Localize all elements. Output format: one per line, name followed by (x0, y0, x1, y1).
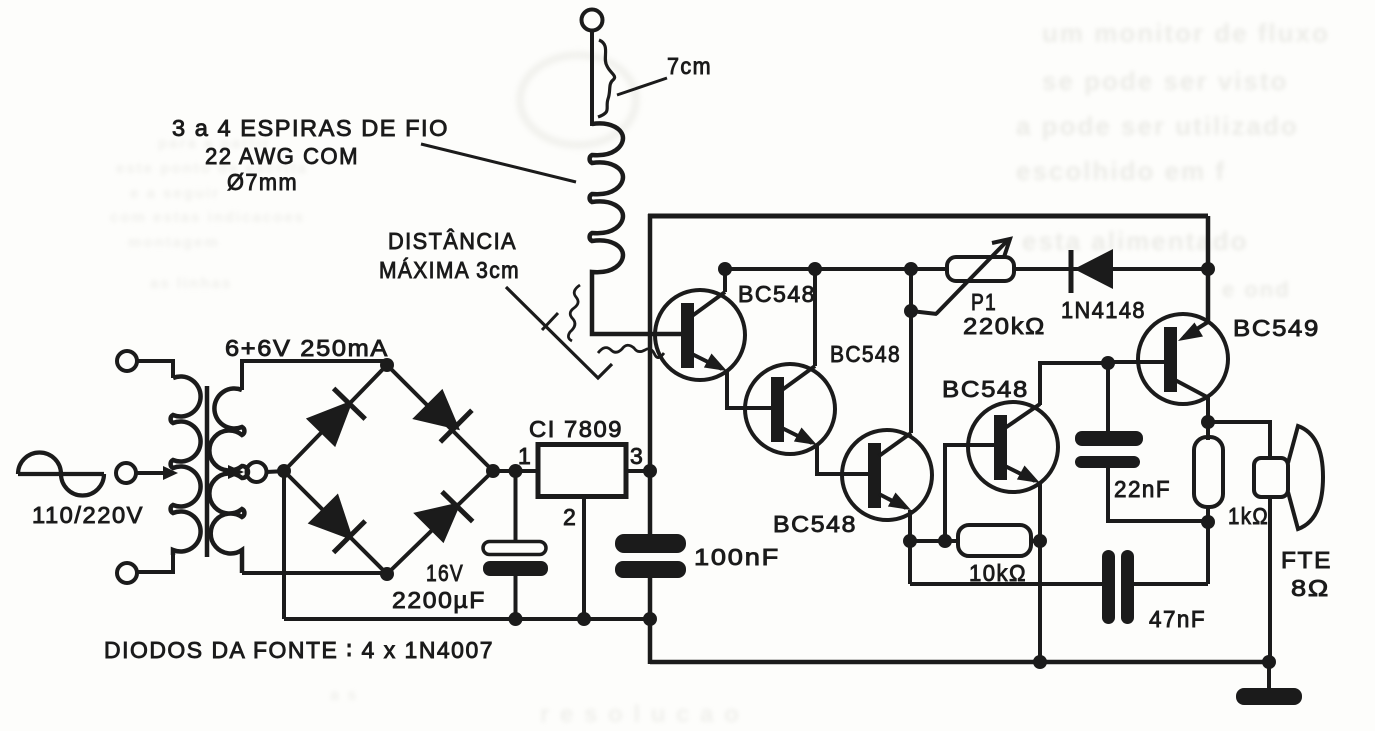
svg-text:a pode ser utilizado: a pode ser utilizado (1016, 111, 1299, 141)
node diode cathode rail (1201, 262, 1215, 276)
terminal top (117, 351, 137, 371)
primary tap arrow (163, 466, 178, 480)
svg-text:escolhido em f: escolhido em f (1016, 156, 1226, 186)
node rail end (643, 612, 657, 626)
wire BC549 base (1108, 360, 1164, 364)
secondary bottom wire (242, 571, 387, 575)
wire bottom rail (284, 617, 650, 621)
wire bottom terminal to primary (137, 555, 173, 572)
wire box top edge (648, 214, 1208, 219)
node bridge left (277, 464, 291, 478)
ghost bleed-through text left (110, 135, 308, 292)
svg-text:r e s o l u c a o: r e s o l u c a o (540, 701, 741, 728)
wire BC549 emitter down (1206, 397, 1210, 440)
transistor Q2 BC548 (745, 364, 835, 454)
node Q2 collector (808, 262, 822, 276)
node bridge right (486, 464, 500, 478)
transformer secondary winding (209, 389, 248, 574)
svg-text:16V: 16V (426, 560, 464, 586)
svg-text:P1: P1 (971, 289, 997, 315)
node pin2 bottom (577, 612, 591, 626)
resistor 10k (958, 525, 1031, 556)
ghost bleed-through bottom (330, 687, 741, 728)
transformer primary winding (171, 377, 201, 556)
svg-text:7cm: 7cm (667, 53, 712, 79)
diode D1 top-left (308, 388, 366, 445)
wire box left edge upper (648, 214, 653, 534)
wire box right edge top (1206, 216, 1211, 322)
wire pin3 (626, 469, 652, 473)
ground symbol (1236, 688, 1302, 705)
capacitor 2200uF wire top (514, 471, 518, 543)
node cap bottom (509, 612, 523, 626)
svg-text:BC548: BC548 (738, 281, 816, 307)
svg-text:BC549: BC549 (1233, 315, 1320, 341)
AC sine symbol (18, 452, 104, 495)
coil L1 3-4 espiras (590, 123, 681, 334)
svg-text:1kΩ: 1kΩ (1228, 503, 1269, 529)
node P1 wiper junction (904, 304, 918, 318)
wire Q1 emitter to Q2 base (727, 370, 771, 408)
svg-text:6+6V 250mA: 6+6V 250mA (225, 335, 389, 361)
node Q4 base bottom (938, 534, 952, 548)
wire bridge right to regulator (493, 469, 538, 473)
svg-text:DISTÂNCIA: DISTÂNCIA (388, 228, 517, 254)
distance squiggle below wire (598, 345, 664, 357)
svg-text:com estas indicacoes: com estas indicacoes (110, 209, 305, 226)
speaker FTE (1254, 426, 1323, 529)
node bridge bottom (380, 567, 394, 581)
wire box left edge lower (648, 578, 653, 664)
svg-text:CI 7809: CI 7809 (529, 416, 623, 442)
wire Q1 collector up (723, 269, 727, 292)
resistor 1k (1194, 437, 1223, 507)
wire Q3 collector up (909, 269, 913, 433)
capacitor 2200uF wire bottom (514, 576, 518, 619)
node pin3 (643, 464, 657, 478)
node bridge top (380, 358, 394, 372)
wire collector rail (725, 267, 947, 271)
secondary tap arrow (228, 465, 244, 479)
potentiometer P1 (911, 239, 1014, 314)
capacitor 100nF plate bottom (615, 561, 686, 578)
node BC549 emitter (1201, 415, 1215, 429)
svg-text:e a seguir: e a seguir (130, 185, 220, 202)
regulator CI7809 box (538, 445, 626, 497)
bridge diamond wires (284, 365, 493, 574)
svg-text:um monitor de fluxo: um monitor de fluxo (1042, 18, 1330, 48)
svg-text:a s: a s (330, 687, 358, 704)
wire pin2 (582, 496, 586, 619)
capacitor 22nF (1075, 363, 1208, 521)
wire speaker to ground (1268, 497, 1272, 664)
node Q3 emitter (903, 534, 917, 548)
wire Q2 emitter to Q3 base (817, 444, 868, 474)
transistor Q3 BC548 (842, 430, 932, 520)
svg-text:se pode ser visto: se pode ser visto (1042, 66, 1288, 96)
svg-text:Ø7mm: Ø7mm (227, 169, 298, 195)
svg-text:FTE: FTE (1281, 547, 1332, 573)
diode D2 top-right (414, 391, 472, 442)
transformer core (205, 386, 210, 557)
svg-text:1: 1 (518, 443, 532, 469)
wire speaker feed (1208, 422, 1270, 458)
svg-text:MÁXIMA 3cm: MÁXIMA 3cm (379, 257, 520, 283)
svg-text:3: 3 (630, 443, 644, 469)
svg-text:1N4148: 1N4148 (1061, 297, 1146, 323)
node ground junction (1262, 655, 1276, 669)
node Q4 emitter bottom rail (1033, 655, 1047, 669)
svg-text:110/220V: 110/220V (32, 502, 144, 528)
wire Q4 collector to BC549 base (1040, 363, 1108, 405)
secondary tap terminal (247, 462, 267, 482)
ghost bleed-through text top right (1016, 18, 1330, 302)
svg-text:DIODOS DA FONTE ∶ 4 x 1N4007: DIODOS DA FONTE ∶ 4 x 1N4007 (104, 637, 494, 663)
wire 10k node (910, 539, 958, 543)
capacitor 2200uF plate - (483, 561, 548, 576)
antenna wire (590, 31, 594, 127)
7cm pointer line (617, 78, 667, 95)
svg-text:2200µF: 2200µF (392, 587, 486, 613)
diode 1N4148 (1071, 249, 1113, 293)
diode D3 bottom-left (310, 495, 366, 552)
ghost ellipse bleed-through near antenna (520, 55, 636, 145)
wire P1 to diode (1014, 267, 1208, 271)
node Q1 collector (718, 262, 732, 276)
svg-text:22 AWG COM: 22 AWG COM (205, 143, 359, 169)
transistor Q1 BC548 (655, 290, 745, 380)
svg-text:montagem: montagem (128, 234, 220, 251)
wire tap to bridge (267, 471, 287, 472)
wire mid terminal to tap (136, 471, 166, 475)
wire Q2 collector up (813, 269, 817, 366)
svg-text:47nF: 47nF (1149, 606, 1206, 632)
svg-text:as linhas: as linhas (150, 275, 232, 292)
svg-text:esta alimentado: esta alimentado (1022, 226, 1249, 256)
wire bridge left vertex down (282, 471, 286, 619)
coil pointer line (421, 144, 576, 182)
transistor Q4 BC548 (968, 402, 1058, 492)
svg-text:8Ω: 8Ω (1291, 575, 1330, 601)
distance pointer tick (542, 313, 558, 330)
svg-text:e ond: e ond (1222, 277, 1291, 302)
node cap top (509, 464, 523, 478)
distance squiggle left of coil (568, 285, 580, 341)
svg-text:2: 2 (563, 504, 577, 530)
capacitor 100nF plate top (615, 534, 686, 553)
antenna length brace (598, 40, 615, 117)
terminal mid (116, 463, 136, 483)
diode D4 bottom-right (415, 492, 473, 542)
ground stub (1267, 662, 1271, 690)
transistor Q5 BC549 (1138, 314, 1228, 404)
terminal bottom (117, 563, 137, 583)
node 1k bottom (1201, 515, 1215, 529)
capacitor 2200uF plate + (483, 542, 546, 555)
wire Q4 emitter down (1038, 482, 1042, 662)
secondary top wire (242, 361, 387, 390)
wire Q3 emitter down (908, 510, 912, 541)
svg-text:100nF: 100nF (694, 544, 780, 570)
svg-text:BC548: BC548 (942, 376, 1029, 402)
svg-text:BC548: BC548 (773, 511, 857, 537)
wire Q4 base (945, 445, 994, 541)
wire box bottom edge (650, 660, 1269, 665)
svg-text:220kΩ: 220kΩ (963, 313, 1046, 339)
node Q4 collector / 22nF top (1101, 356, 1115, 370)
antenna terminal circle (582, 10, 603, 31)
node Q4 emitter 10k (1033, 534, 1047, 548)
node Q3 collector rail (904, 262, 918, 276)
svg-text:BC548: BC548 (830, 341, 901, 367)
capacitor 47nF (910, 541, 1208, 624)
svg-text:3 a 4 ESPIRAS DE FIO: 3 a 4 ESPIRAS DE FIO (172, 115, 449, 141)
svg-text:22nF: 22nF (1114, 476, 1171, 502)
wire top terminal to primary (137, 361, 173, 378)
wire 1k bottom node (1206, 507, 1210, 584)
wire 10k right (1031, 539, 1040, 543)
distance pointer line (506, 287, 612, 378)
